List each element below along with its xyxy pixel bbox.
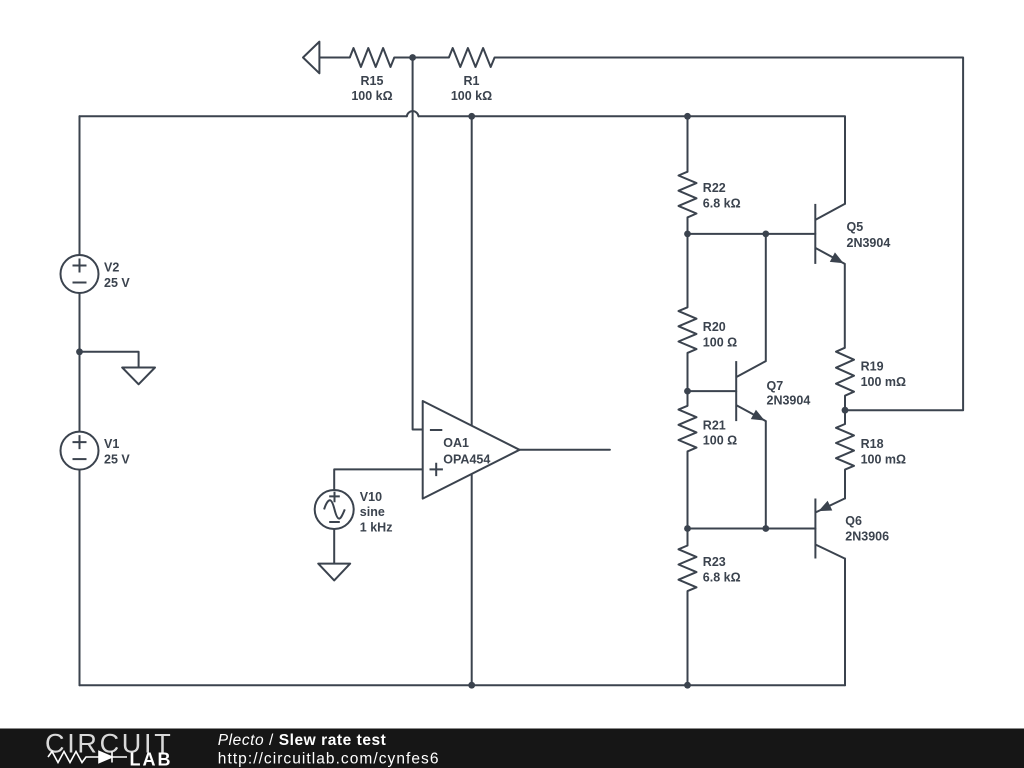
resistor R20 100 Ω (679, 307, 697, 353)
transistor Q5 2N3904 (NPN) (815, 204, 845, 264)
svg-text:OA1: OA1 (443, 436, 469, 450)
junction node R21/R23/Q6 base (684, 525, 691, 532)
resistor R19 100 mΩ (836, 348, 854, 396)
svg-text:25 V: 25 V (104, 276, 130, 290)
svg-text:V2: V2 (104, 261, 119, 275)
footer bar (0, 729, 1024, 768)
junction node Q7 emitter / Q6 base (762, 525, 769, 532)
wire Q6 collector vertical (844, 559, 846, 686)
ground (below V10) (318, 564, 350, 581)
transistor Q6 2N3906 (PNP) (815, 499, 844, 559)
svg-text:R21: R21 (703, 418, 726, 432)
svg-text:6.8 kΩ: 6.8 kΩ (703, 570, 741, 584)
svg-text:100 kΩ: 100 kΩ (451, 89, 492, 103)
svg-text:100 Ω: 100 Ω (703, 434, 737, 448)
wire op-amp negative supply (471, 470, 473, 685)
wire hop over inverting line (407, 111, 419, 116)
voltage source V2 25 V (61, 255, 99, 293)
wire R20 to R21 (687, 353, 689, 406)
op-amp OA1 OPA454 (423, 401, 520, 499)
resistor R15 100 kΩ (350, 48, 395, 67)
svg-text:R15: R15 (361, 74, 384, 88)
wire R23 to bottom rail (687, 591, 689, 685)
svg-text:100 Ω: 100 Ω (703, 335, 737, 349)
svg-text:R20: R20 (703, 320, 726, 334)
wire left rail top to V2 (79, 116, 81, 255)
svg-text:Plecto / Slew rate test: Plecto / Slew rate test (218, 732, 387, 749)
svg-text:100 mΩ: 100 mΩ (861, 375, 906, 389)
resistor R18 100 mΩ (836, 424, 854, 470)
svg-text:LAB: LAB (130, 750, 173, 768)
wire Q7 collector vertical (765, 234, 767, 361)
wire Q5 base (688, 233, 816, 235)
wire top rail to R22 (687, 116, 689, 171)
wire top rail right part to Q5 collector (419, 116, 846, 204)
junction node R20/R21/Q7 base (684, 388, 691, 395)
svg-text:sine: sine (360, 505, 385, 519)
wire op-amp output (520, 449, 610, 451)
svg-text:6.8 kΩ: 6.8 kΩ (703, 197, 741, 211)
svg-text:R1: R1 (464, 74, 480, 88)
wire op-amp positive supply (471, 116, 473, 430)
svg-text:R23: R23 (703, 555, 726, 569)
junction node top rail / R22 (684, 113, 691, 120)
svg-text:2N3904: 2N3904 (847, 236, 891, 250)
svg-text:1 kHz: 1 kHz (360, 521, 393, 535)
junction node R22/Q5 base (684, 231, 691, 238)
wire Q7 emitter vertical (765, 421, 767, 528)
wire Q6 base (688, 528, 816, 530)
resistor R22 6.8 kΩ (679, 172, 697, 218)
svg-text:100 mΩ: 100 mΩ (861, 453, 906, 467)
wire V1 bottom to bottom rail (79, 470, 81, 686)
CircuitLab logo squiggle (resistor + diode) (48, 752, 127, 763)
svg-text:V1: V1 (104, 437, 119, 451)
node flag terminal (input arrow) (303, 42, 319, 74)
wire R15 to R1 (394, 57, 449, 59)
svg-text:Q6: Q6 (845, 514, 862, 528)
svg-text:R22: R22 (703, 181, 726, 195)
wire Q7 base (688, 390, 737, 392)
junction node bottom rail / R23 (684, 682, 691, 689)
wire top rail left part (80, 115, 407, 117)
junction node bottom rail / op-amp supply (468, 682, 475, 689)
svg-text:Q7: Q7 (767, 379, 784, 393)
wire V10 to non-inverting input (334, 469, 423, 490)
wire Q5 emitter to R19 (844, 264, 846, 348)
junction node left rail ground tap (76, 348, 83, 355)
ground (between V2 and V1) (122, 368, 155, 385)
junction node R19/R18 feedback (842, 407, 849, 414)
transistor Q7 2N3904 (NPN) (736, 361, 766, 421)
junction node R15/R1 (409, 54, 416, 61)
wire R1 right, down right edge, to R19/R18 node (495, 58, 963, 411)
wire R21 to R23 (687, 451, 689, 545)
svg-text:R19: R19 (861, 360, 884, 374)
svg-text:R18: R18 (861, 437, 884, 451)
wire V2 bottom to V1 top (79, 293, 81, 432)
svg-text:2N3906: 2N3906 (845, 530, 889, 544)
svg-text:http://circuitlab.com/cynfes6: http://circuitlab.com/cynfes6 (218, 751, 440, 768)
svg-text:100 kΩ: 100 kΩ (351, 89, 392, 103)
voltage source V1 25 V (61, 432, 99, 470)
svg-text:OPA454: OPA454 (443, 452, 490, 466)
svg-text:25 V: 25 V (104, 453, 130, 467)
svg-text:2N3904: 2N3904 (767, 393, 811, 407)
wire R22 to R20 (687, 217, 689, 307)
wire ground branch from left rail (80, 352, 139, 368)
wire R19 to R18 (844, 396, 846, 424)
junction node Q7 collector / Q5 base (762, 231, 769, 238)
svg-text:V10: V10 (360, 490, 382, 504)
resistor R23 6.8 kΩ (679, 546, 697, 592)
resistor R1 100 kΩ (449, 48, 495, 67)
svg-text:Q5: Q5 (847, 220, 864, 234)
sine source V10 1 kHz (315, 490, 354, 529)
wire R18 to Q6 emitter (844, 470, 846, 499)
wire V10 ground stem (333, 529, 335, 564)
wire inverting input drop from R15/R1 node (413, 58, 423, 430)
resistor R21 100 Ω (679, 406, 697, 452)
wire bottom rail (80, 684, 846, 686)
junction node top rail / op-amp supply (468, 113, 475, 120)
wire top feedback: arrow to R15 (319, 57, 349, 59)
